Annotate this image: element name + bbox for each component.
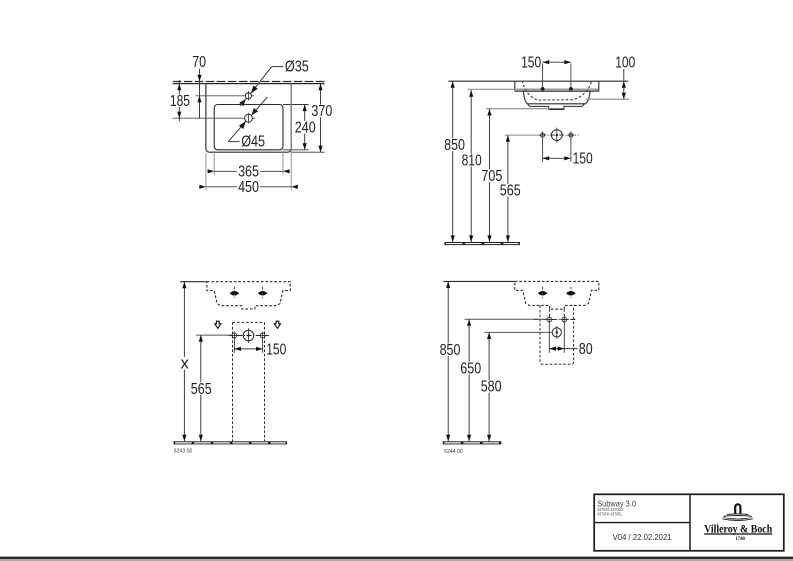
dimension 80: line <box>549 348 577 350</box>
dimension 565 label <box>499 184 522 197</box>
svg-text:5243 00: 5243 00 <box>174 448 193 454</box>
rear view: tap hole symbol left <box>538 291 548 296</box>
dimension 150b: right extension <box>262 339 264 353</box>
dimension 810 label <box>460 154 483 167</box>
rear view: drain circle <box>552 328 561 337</box>
dimension x label <box>179 357 190 370</box>
svg-text:80: 80 <box>579 341 593 358</box>
logo: plate swoosh <box>721 517 754 520</box>
dimension 565b arrows <box>199 335 203 342</box>
svg-text:4370FK 4370FL: 4370FK 4370FL <box>597 512 622 518</box>
svg-text:850: 850 <box>444 137 465 154</box>
leader D35: arrow to hole <box>249 86 258 95</box>
logo: plate line 2 <box>724 515 752 518</box>
leader D35: opposite arrow <box>239 97 248 106</box>
dimension 365 arrows <box>208 169 215 173</box>
plan view: basin inner bowl rounded rectangle <box>214 105 283 150</box>
front view: 565 reference line <box>196 334 232 336</box>
side view: tap hole right <box>569 87 573 91</box>
front view: bolt right <box>260 333 265 338</box>
dimension 150b: left extension <box>233 339 235 353</box>
dimension 100 line <box>623 69 625 99</box>
svg-text:100: 100 <box>615 55 635 72</box>
dimension 70 line <box>199 69 201 118</box>
rear view: basin hidden outline (dashed) <box>515 281 599 309</box>
rear view: fixing channel left (dashed) <box>549 309 551 318</box>
front view: tap hole symbol right <box>258 291 268 296</box>
svg-text:565: 565 <box>191 381 212 398</box>
dimension 150 mid: arrows <box>543 156 550 160</box>
dimension 80: right extension <box>563 323 565 353</box>
svg-text:565: 565 <box>500 183 521 200</box>
dimension 650 arrows <box>467 319 471 326</box>
dimension 370 arrows <box>318 84 322 91</box>
dimension 565b label <box>190 382 213 395</box>
dimension 70 arrows <box>197 75 201 82</box>
side view: drain circle <box>551 130 562 141</box>
plan view: countertop front edge (solid) <box>173 83 325 85</box>
dimension 650 label <box>459 362 482 375</box>
svg-text:240: 240 <box>295 120 316 137</box>
dimension 810 arrows <box>469 90 473 97</box>
svg-text:450: 450 <box>238 179 259 196</box>
leader D45: opposite arrow <box>249 108 258 117</box>
front view: fixing box right edge (dashed) <box>264 322 266 441</box>
svg-text:850: 850 <box>440 342 461 359</box>
plan view: basin outer rectangle <box>206 84 291 152</box>
svg-text:150: 150 <box>573 151 593 168</box>
svg-text:Subway 3.0: Subway 3.0 <box>597 498 636 508</box>
dimension 850b line <box>447 281 449 441</box>
dimension 150 mid: right extension <box>570 138 572 162</box>
dimension 810 line <box>470 90 472 242</box>
dimension 80: left extension <box>548 323 550 353</box>
front view: tap hole symbol left <box>230 291 240 296</box>
svg-text:5244 00: 5244 00 <box>444 449 463 455</box>
dimension 850 label <box>443 138 466 151</box>
dimension 565 arrows <box>506 135 510 142</box>
svg-text:70: 70 <box>192 54 206 71</box>
front view: overflow arrow left <box>215 321 221 328</box>
side view: basin rim outline <box>515 81 599 91</box>
plan view: 365 right extension <box>282 151 284 175</box>
dimension 580 label <box>480 380 503 393</box>
dimension 240 label <box>294 121 317 134</box>
rear view: bolt centerline (dash-dot) <box>534 319 576 321</box>
dimension 150 top: line <box>543 61 571 63</box>
page footer bar dark <box>0 557 793 559</box>
side view: bolt left <box>541 133 545 137</box>
dimension 850b arrows <box>446 281 450 288</box>
page footer bar grey <box>0 559 793 561</box>
rear view: fixing channel right (dashed) <box>563 309 565 318</box>
dimension 450 arrows <box>199 185 206 189</box>
rear view: floor line <box>443 441 502 444</box>
side view: bolt right <box>569 133 573 137</box>
logo: plate bottom arc <box>723 519 753 521</box>
front view: fixing box top (dashed) <box>233 321 265 323</box>
plan view: countertop back edge (dashed) <box>173 81 325 83</box>
logo: arch symbol <box>735 504 740 514</box>
dimension 850 arrows <box>451 81 455 88</box>
side view: 705 reference line <box>486 108 549 110</box>
dimension 150 top: right extension <box>570 64 572 91</box>
leader D45: elbow <box>228 141 239 143</box>
plan view: tap hole 2 (front, D45) <box>245 114 253 122</box>
svg-text:650: 650 <box>460 360 481 377</box>
side view: bolt centerline (dash-dot) <box>541 134 579 136</box>
plan view: 450 left extension <box>205 153 207 190</box>
plan view: 240 bottom extension <box>283 149 309 151</box>
rear view: bolt left <box>547 317 552 322</box>
side view: 810 reference line <box>468 88 515 90</box>
svg-text:810: 810 <box>462 153 482 170</box>
plan view: 370 bottom extension <box>291 151 324 153</box>
dimension 565b line <box>200 335 202 441</box>
svg-text:V04 / 22.02.2021: V04 / 22.02.2021 <box>613 532 672 542</box>
dimension 100 arrows <box>622 81 626 88</box>
dimension 580 arrows <box>487 332 491 339</box>
dimension 150 top: left extension <box>542 64 544 91</box>
dimension 80: arrows <box>549 347 556 351</box>
front view: floor line <box>174 441 288 444</box>
logo: underline <box>704 533 772 535</box>
leader D35: elbow <box>272 66 284 68</box>
svg-text:370: 370 <box>311 103 332 120</box>
title block: outer frame <box>594 494 784 551</box>
dimension 850b label <box>438 344 461 357</box>
title block: horizontal divider <box>594 522 690 524</box>
side view: drain fitting <box>528 104 585 109</box>
side view: bowl inner profile (dashed) <box>523 82 592 100</box>
front view: basin hidden outline (dashed) <box>207 282 290 309</box>
plan view: hole-2 reference line (185 ref) <box>173 117 245 119</box>
svg-text:150: 150 <box>266 341 286 358</box>
dimension 565 line <box>507 135 509 242</box>
dimension 365 line <box>214 170 283 172</box>
dimension 705 line <box>489 109 491 242</box>
plan view: 450 right extension <box>290 84 292 190</box>
rear view: fixing box (dashed) <box>540 305 574 364</box>
front view: bolt left <box>232 333 237 338</box>
rear view: 580 reference line <box>485 331 553 333</box>
logo: plate line 1 <box>727 513 748 516</box>
plan view: 365 left extension <box>213 151 215 175</box>
svg-text:365: 365 <box>238 164 259 181</box>
dimension 150b: line <box>234 348 262 350</box>
rear view: wall reference line <box>443 280 515 282</box>
svg-text:Ø35: Ø35 <box>285 58 309 75</box>
dimension 185 label <box>169 94 192 107</box>
dimension 370 line <box>320 84 322 153</box>
front view: overflow arrow right <box>274 321 280 328</box>
side view: tap hole left <box>541 87 545 91</box>
dimension 580 line <box>488 332 490 441</box>
dimension 185 arrows <box>177 84 181 91</box>
dimension 240 arrows <box>303 105 307 112</box>
svg-text:1748: 1748 <box>735 536 745 542</box>
dimension 185 line <box>178 80 180 121</box>
dimension 370 label <box>310 105 333 118</box>
leader D45: arrow to hole <box>239 120 248 129</box>
front view: wall reference line <box>180 281 207 283</box>
plan view: hole-1 reference line <box>196 95 246 97</box>
front view: fixing box left edge (dashed) <box>232 322 234 441</box>
rear view: 650 reference line <box>465 318 547 320</box>
dimension 650 line <box>468 319 470 441</box>
side view: rear shelf grey line <box>515 88 599 90</box>
dimension 365 label <box>237 165 260 178</box>
dimension 705 label <box>480 170 503 183</box>
dimension x arrows <box>182 282 186 289</box>
svg-text:Ø45: Ø45 <box>241 133 265 150</box>
svg-text:185: 185 <box>170 93 190 110</box>
dimension 150 mid: line <box>543 157 571 159</box>
plan view: tap hole 1 (rear, D35) <box>245 93 251 99</box>
svg-text:x: x <box>181 354 190 373</box>
side view: floor line <box>445 242 520 245</box>
dimension 450 label <box>237 181 260 194</box>
title block: vertical divider <box>689 494 691 551</box>
svg-text:150: 150 <box>521 55 541 72</box>
side view: bowl outer profile <box>523 91 590 103</box>
dimension 705 arrows <box>487 109 491 116</box>
dimension 850 line <box>452 81 454 242</box>
dimension 150b: arrows <box>234 347 241 351</box>
side view: wall / worktop line <box>449 80 629 82</box>
rear view: bolt right <box>562 317 567 322</box>
svg-text:580: 580 <box>481 379 502 396</box>
dimension 150 mid: left extension <box>542 138 544 162</box>
dimension 150 top: arrows <box>543 60 550 64</box>
front view: drain circle <box>243 330 254 341</box>
dimension x line <box>183 282 185 442</box>
dimension 240 line <box>304 105 306 150</box>
dimension 450 line <box>206 186 291 188</box>
side view: 565 reference line <box>505 134 541 136</box>
front view: bolt centerline (dash-dot) <box>228 335 269 337</box>
side view: 100 reference line <box>586 98 630 100</box>
rear view: tap hole symbol right <box>566 291 576 296</box>
plan view: 240 top extension <box>283 104 309 106</box>
